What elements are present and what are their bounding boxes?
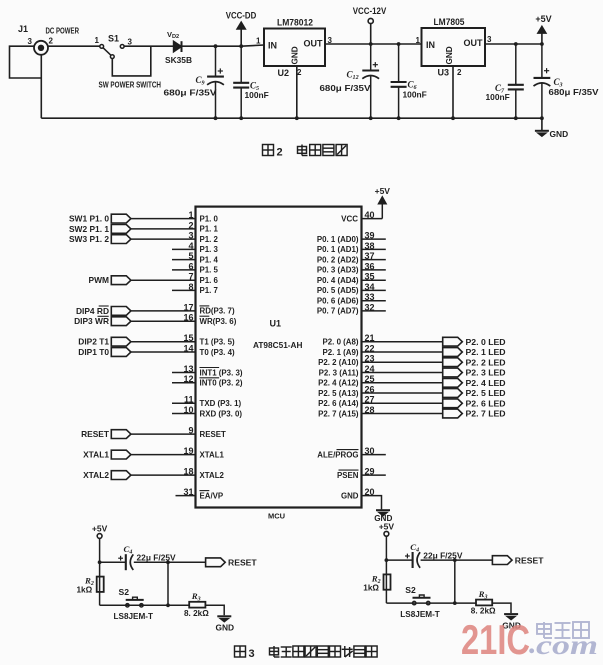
power flag +5V reset2 [379, 521, 395, 536]
node RESET tag [81, 429, 131, 439]
junction C6 [397, 42, 401, 46]
pin 24 P2.3 (A11) [319, 364, 375, 377]
svg-text:680μ F/35V: 680μ F/35V [164, 88, 217, 98]
pin 31 EA/VP [183, 487, 223, 500]
svg-text:ALE/PROG: ALE/PROG [317, 450, 358, 459]
wire stub [172, 413, 196, 415]
svg-text:U3: U3 [438, 68, 450, 78]
caption figure 2 [263, 145, 348, 159]
svg-text:LS8JEM-T: LS8JEM-T [400, 609, 440, 619]
ground reset2 [502, 614, 521, 630]
svg-text:S1: S1 [108, 34, 119, 44]
wire S1 lever to bypass [112, 46, 151, 76]
node DIP1 tag [78, 347, 131, 357]
node P2.1.LED [443, 347, 506, 357]
pin 36 P0 (AD3) [317, 261, 375, 274]
pin 19 XTAL1 [183, 446, 224, 459]
svg-text:P0. 2 (AD2): P0. 2 (AD2) [317, 255, 359, 264]
pin 17 RD(P3. 7) [183, 302, 234, 315]
junction C9 [214, 44, 218, 48]
switch S2 LS8JEM-T [114, 587, 154, 621]
wire R3 to ground [205, 605, 224, 615]
svg-text:GND: GND [445, 46, 454, 64]
svg-text:100nF: 100nF [403, 90, 427, 100]
svg-text:8. 2kΩ: 8. 2kΩ [184, 609, 209, 618]
wire stub [172, 382, 196, 384]
wire stub [172, 372, 196, 374]
pin 16 WR(P3. 6) [183, 313, 236, 326]
node SW1 tag [69, 214, 131, 224]
junction ground rail [295, 116, 299, 120]
junction C3 [540, 42, 544, 46]
svg-text:1: 1 [416, 36, 421, 45]
svg-text:P0. 7 (AD7): P0. 7 (AD7) [317, 307, 359, 316]
pin 15 T1 (P3. 5) [183, 333, 234, 346]
wire XTAL1 to MCU [131, 454, 196, 456]
svg-text:GND: GND [291, 46, 300, 64]
wire C4 to RESET tag [134, 561, 206, 563]
wire stub EA/VP [176, 495, 196, 497]
pin 7 P1.6 [188, 272, 218, 285]
svg-text:XTAL1: XTAL1 [200, 450, 225, 459]
node DIP2 tag [78, 337, 131, 347]
junction C7 [514, 42, 518, 46]
svg-text:22μ F/25V: 22μ F/25V [423, 550, 463, 560]
wire SW3 to MCU [131, 238, 196, 240]
pin 8 P1.7 [188, 282, 218, 295]
wire P2.5 to LED tag [362, 392, 443, 394]
svg-text:21IC: 21IC [461, 616, 530, 663]
svg-text:DIP1 T0: DIP1 T0 [78, 347, 109, 357]
capacitor C4 22uF/25V [405, 542, 463, 568]
node P2.4.LED [443, 378, 506, 388]
wire stub ALE [362, 454, 386, 456]
svg-text:P2. 7 LED: P2. 7 LED [466, 409, 506, 419]
wire C4 to RESET tag [421, 559, 493, 561]
wire P2.2 to LED tag [362, 361, 443, 363]
wire stub [362, 310, 386, 312]
node RESET tag [492, 555, 544, 565]
svg-text:P2. 6 (A14): P2. 6 (A14) [318, 399, 359, 408]
pin 11 TXD (P3. 1) [184, 395, 242, 408]
svg-text:P0. 1 (AD0): P0. 1 (AD0) [317, 235, 359, 244]
svg-text:2: 2 [457, 68, 462, 77]
wire stub [172, 259, 196, 261]
svg-text:INT0 (P3. 2): INT0 (P3. 2) [200, 379, 243, 388]
svg-text:P2. 0 (A8): P2. 0 (A8) [323, 338, 359, 347]
node DIP3 tag [74, 316, 131, 326]
wire XTAL2 to MCU [131, 474, 196, 476]
power flag +5V output [535, 14, 551, 44]
svg-text:P1. 5: P1. 5 [200, 266, 219, 275]
node SW3 tag [69, 234, 131, 244]
svg-text:2: 2 [277, 147, 283, 159]
pin 4 P1.3 [188, 241, 218, 254]
ground reset1 [215, 616, 234, 632]
pin 22 P2.1 (A9) [323, 343, 375, 356]
svg-text:P1. 6: P1. 6 [200, 276, 219, 285]
wire DIP4 to MCU [131, 310, 196, 312]
svg-text:P0. 6 (AD6): P0. 6 (AD6) [317, 297, 359, 306]
svg-text:S2: S2 [119, 587, 130, 597]
junction ground rail [369, 116, 373, 120]
pin 10 RXD (P3. 0) [183, 405, 242, 418]
wire stub [172, 402, 196, 404]
junction [166, 560, 170, 564]
power flag +5V MCU VCC [362, 186, 391, 219]
wire SW1 to MCU [131, 218, 196, 220]
svg-text:3: 3 [249, 648, 255, 660]
wire stub [172, 248, 196, 250]
op-amp U1 AT98C51-AH MCU box [196, 207, 362, 508]
svg-text:U2: U2 [278, 68, 290, 78]
pin 23 P2.2 (A10) [318, 354, 374, 367]
svg-text:MCU: MCU [268, 512, 285, 521]
svg-text:SW POWER SWITCH: SW POWER SWITCH [99, 81, 162, 90]
svg-text:P1. 4: P1. 4 [200, 255, 219, 264]
capacitor C12 680uF/35V [320, 44, 380, 118]
svg-text:8. 2kΩ: 8. 2kΩ [471, 607, 496, 616]
svg-text:3: 3 [487, 35, 492, 44]
svg-text:P1. 7: P1. 7 [200, 286, 219, 295]
node XTAL2 tag [83, 470, 131, 480]
wire GND pin to ground [362, 496, 382, 510]
wire S1 pin3 to diode VD2 [124, 45, 173, 47]
ground power module [535, 118, 568, 139]
svg-text:OUT: OUT [464, 38, 484, 48]
pin 12 INT0 (P3. 2) [183, 374, 242, 387]
svg-text:P1. 3: P1. 3 [200, 245, 219, 254]
svg-text:T0 (P3. 4): T0 (P3. 4) [200, 348, 235, 357]
node P2.7.LED [443, 409, 506, 419]
pin 9 RESET [188, 426, 226, 439]
svg-text:VCC-12V: VCC-12V [353, 6, 387, 16]
wire U3 OUT to +5V [485, 43, 542, 45]
pin 30 ALE/PROG [317, 446, 374, 459]
pin 29 PSEN [337, 467, 375, 480]
svg-text:DIP2 T1: DIP2 T1 [78, 337, 109, 347]
node RESET tag [206, 558, 258, 568]
wire stub PSEN [362, 474, 386, 476]
pin 39 P0 (AD0) [317, 231, 375, 244]
caption figure 3 [235, 646, 378, 660]
wire stub [362, 238, 386, 240]
pin 21 P2.0 (A8) [323, 333, 375, 346]
wire VD2 to U2 IN [182, 45, 242, 47]
svg-text:SW2 P1. 1: SW2 P1. 1 [69, 224, 109, 234]
ground MCU [374, 510, 392, 523]
svg-text:P0. 1 (AD1): P0. 1 (AD1) [317, 245, 359, 254]
wire DIP2 to MCU [131, 341, 196, 343]
svg-text:100nF: 100nF [486, 92, 510, 102]
svg-text:AT98C51-AH: AT98C51-AH [253, 340, 303, 350]
pin 26 P2.5 (A13) [318, 384, 374, 397]
node P2.5.LED [443, 388, 506, 398]
svg-text:P2. 1 (A9): P2. 1 (A9) [323, 348, 359, 357]
svg-text:OUT: OUT [304, 39, 324, 49]
resistor R2 1k [77, 576, 104, 595]
wire DIP3 to MCU [131, 320, 196, 322]
node P2.6.LED [443, 399, 506, 409]
svg-text:P2. 1 LED: P2. 1 LED [466, 347, 506, 357]
svg-text:P2. 4 (A12): P2. 4 (A12) [318, 379, 359, 388]
wire +5V down [385, 536, 387, 603]
svg-text:LM7805: LM7805 [434, 17, 465, 27]
svg-text:22μ F/25V: 22μ F/25V [137, 553, 177, 563]
pin 14 T0 (P3. 4) [183, 343, 234, 356]
regulator U2 LM78012 [256, 18, 333, 79]
svg-text:P2. 2 LED: P2. 2 LED [466, 357, 506, 367]
regulator U3 LM7805 [416, 17, 493, 78]
svg-text:XTAL1: XTAL1 [83, 450, 109, 460]
wire junction down [167, 562, 169, 605]
pin 34 P0 (AD5) [317, 282, 375, 295]
svg-text:1kΩ: 1kΩ [77, 586, 93, 595]
wire to C4 [100, 561, 126, 563]
node PWM tag [89, 275, 131, 285]
svg-text:RXD (P3. 0): RXD (P3. 0) [200, 409, 243, 418]
capacitor C5 100nF [233, 46, 269, 118]
svg-text:PSEN: PSEN [337, 471, 359, 480]
pin 37 P0 (AD2) [317, 251, 375, 264]
svg-text:PWM: PWM [89, 275, 109, 285]
junction [453, 558, 457, 562]
junction ground rail [514, 116, 518, 120]
diode VD2 SK35B [165, 30, 192, 65]
svg-text:U1: U1 [270, 319, 282, 329]
svg-text:+5V: +5V [379, 521, 395, 531]
svg-text:+5V: +5V [92, 524, 108, 534]
wire stub [362, 289, 386, 291]
svg-text:P2. 5 LED: P2. 5 LED [466, 388, 506, 398]
resistor R2 1k [363, 573, 390, 592]
junction VCC-DD [239, 44, 243, 48]
svg-text:J1: J1 [18, 24, 28, 34]
wire stub [362, 259, 386, 261]
wire P2.7 to LED tag [362, 413, 443, 415]
wire ground rail [41, 117, 542, 119]
wire U2 OUT to U3 IN [325, 43, 422, 45]
svg-text:SW1 P1. 0: SW1 P1. 0 [69, 214, 109, 224]
wire SW2 to MCU [131, 228, 196, 230]
svg-text:P1. 2: P1. 2 [200, 235, 219, 244]
node SW2 tag [69, 224, 131, 234]
wire R3 to ground [492, 603, 511, 613]
pin 25 P2.4 (A12) [318, 374, 374, 387]
svg-text:XTAL2: XTAL2 [83, 470, 109, 480]
svg-text:P2. 4 LED: P2. 4 LED [466, 378, 506, 388]
svg-text:SK35B: SK35B [165, 55, 192, 65]
svg-text:100nF: 100nF [245, 90, 269, 100]
junction ground rail [397, 116, 401, 120]
pin 13 INT1 (P3. 3) [183, 364, 242, 377]
junction [98, 560, 102, 564]
svg-text:IN: IN [426, 40, 435, 50]
pin 32 P0 (AD7) [317, 302, 375, 315]
wire stub [362, 269, 386, 271]
svg-text:3: 3 [28, 37, 33, 46]
pin 6 P1.5 [188, 261, 218, 274]
node XTAL1 tag [83, 450, 131, 460]
wire stub [172, 269, 196, 271]
svg-text:S2: S2 [405, 585, 416, 595]
wire PWM to MCU [131, 279, 196, 281]
svg-text:GND: GND [550, 129, 569, 139]
node P2.3.LED [443, 368, 506, 378]
svg-text:2: 2 [49, 37, 54, 46]
wire stub [362, 279, 386, 281]
wire P2.1 to LED tag [362, 351, 443, 353]
pin 28 P2.7 (A15) [318, 405, 374, 418]
svg-text:RD(P3. 7): RD(P3. 7) [200, 307, 235, 316]
svg-text:VCC: VCC [341, 214, 358, 223]
wire bottom [386, 602, 476, 604]
capacitor C3 680uF/35V [534, 44, 599, 118]
resistor R3 8.2k [471, 589, 496, 616]
pin 5 P1.4 [188, 251, 218, 264]
junction [166, 603, 170, 607]
svg-text:GND: GND [341, 491, 359, 500]
capacitor C9 680uF/35V [164, 46, 224, 118]
svg-text:1kΩ: 1kΩ [363, 583, 379, 592]
wire RESET to MCU [131, 433, 196, 435]
node P2.0.LED [443, 337, 506, 347]
wire bottom [100, 604, 190, 606]
svg-text:LM78012: LM78012 [277, 18, 313, 28]
svg-text:P2. 0 LED: P2. 0 LED [466, 337, 506, 347]
svg-text:P1. 0: P1. 0 [200, 214, 219, 223]
svg-text:P2. 3 LED: P2. 3 LED [466, 368, 506, 378]
svg-text:LS8JEM-T: LS8JEM-T [114, 611, 154, 621]
svg-text:P2. 7 (A15): P2. 7 (A15) [318, 409, 359, 418]
connector J1 DC power jack [18, 24, 79, 55]
svg-text:EA/VP: EA/VP [200, 491, 224, 500]
svg-text:SW3 P1. 2: SW3 P1. 2 [69, 234, 109, 244]
junction ground rail [214, 116, 218, 120]
wire stub [172, 289, 196, 291]
svg-text:P2. 6 LED: P2. 6 LED [466, 399, 506, 409]
svg-text:P2. 2 (A10): P2. 2 (A10) [318, 358, 359, 367]
capacitor C4 22uF/25V [118, 544, 176, 570]
switch S1 SW POWER SWITCH [95, 34, 162, 90]
wire P2.6 to LED tag [362, 402, 443, 404]
svg-text:WR(P3. 6): WR(P3. 6) [200, 317, 237, 326]
svg-text:TXD (P3. 1): TXD (P3. 1) [200, 399, 242, 408]
wire J1 sleeve to ground rail [40, 55, 42, 118]
svg-text:40: 40 [365, 210, 375, 220]
svg-text:INT1 (P3. 3): INT1 (P3. 3) [200, 368, 243, 377]
svg-text:DIP4 RD: DIP4 RD [76, 306, 109, 316]
svg-text:DC POWER: DC POWER [46, 27, 80, 36]
svg-text:+5V: +5V [375, 186, 391, 196]
pin 38 P0 (AD1) [317, 241, 375, 254]
pin 2 P1.1 [188, 220, 218, 233]
pin 1 P1.0 [188, 210, 218, 223]
junction [385, 558, 389, 562]
node DIP4 tag [76, 306, 131, 316]
svg-text:P2. 3 (A11): P2. 3 (A11) [319, 368, 359, 377]
logo text dianziwang [537, 622, 589, 638]
node VCC-12V [353, 6, 387, 44]
wire U2 GND to rail [296, 66, 298, 118]
svg-text:2: 2 [297, 68, 302, 77]
svg-text:VCC-DD: VCC-DD [226, 11, 257, 21]
pin 20 GND [341, 487, 375, 500]
pin 27 P2.6 (A14) [318, 395, 374, 408]
wire J1 pin3 loop [10, 46, 42, 78]
svg-text:3: 3 [128, 38, 133, 47]
svg-text:RESET: RESET [228, 558, 257, 568]
wire P2.0 to LED tag [362, 341, 443, 343]
wire P2.4 to LED tag [362, 382, 443, 384]
svg-text:P0. 3 (AD3): P0. 3 (AD3) [317, 266, 359, 275]
capacitor C7 100nF [486, 44, 524, 118]
power flag +5V reset1 [92, 524, 108, 539]
svg-text:P0. 5 (AD5): P0. 5 (AD5) [317, 286, 359, 295]
svg-text:RESET: RESET [515, 555, 544, 565]
wire stub [362, 300, 386, 302]
svg-text:P2. 5 (A13): P2. 5 (A13) [318, 389, 359, 398]
wire DIP1 to MCU [131, 351, 196, 353]
wire P2.3 to LED tag [362, 372, 443, 374]
logo 21IC watermark [461, 616, 598, 663]
switch S2 LS8JEM-T [400, 585, 440, 619]
svg-text:IN: IN [268, 41, 277, 51]
junction VCC-12V [369, 42, 373, 46]
pin 35 P0 (AD4) [317, 272, 375, 285]
junction ground rail [451, 116, 455, 120]
svg-text:680μ F/35V: 680μ F/35V [320, 83, 371, 93]
wire junction down [454, 560, 456, 603]
svg-text:RESET: RESET [81, 429, 110, 439]
wire +5V down [99, 538, 101, 605]
svg-text:1: 1 [95, 36, 100, 45]
capacitor C6 100nF [391, 44, 427, 118]
wire J1 pin2 to S1 pin1 [48, 45, 100, 47]
node P2.2.LED [443, 357, 506, 367]
junction ground rail [239, 116, 243, 120]
wire U3 GND to rail [452, 66, 454, 118]
power flag VCC-DD [226, 11, 257, 47]
svg-text:1: 1 [256, 37, 261, 46]
pin 18 XTAL2 [183, 467, 224, 480]
svg-text:T1 (P3. 5): T1 (P3. 5) [200, 338, 235, 347]
svg-text:DIP3 WR: DIP3 WR [74, 316, 109, 326]
svg-text:680μ F/35V: 680μ F/35V [549, 87, 599, 97]
svg-text:P1. 1: P1. 1 [200, 225, 219, 234]
pin 3 P1.2 [188, 231, 218, 244]
junction [453, 601, 457, 605]
svg-text:XTAL2: XTAL2 [200, 471, 225, 480]
junction ground rail [540, 116, 544, 120]
pin 33 P0 (AD6) [317, 292, 375, 305]
svg-text:GND: GND [215, 623, 234, 633]
wire to C4 [386, 559, 412, 561]
svg-text:+5V: +5V [535, 14, 551, 24]
wire stub [362, 248, 386, 250]
svg-text:P0. 4 (AD4): P0. 4 (AD4) [317, 276, 359, 285]
svg-text:RESET: RESET [200, 430, 226, 439]
resistor R3 8.2k [184, 591, 209, 618]
